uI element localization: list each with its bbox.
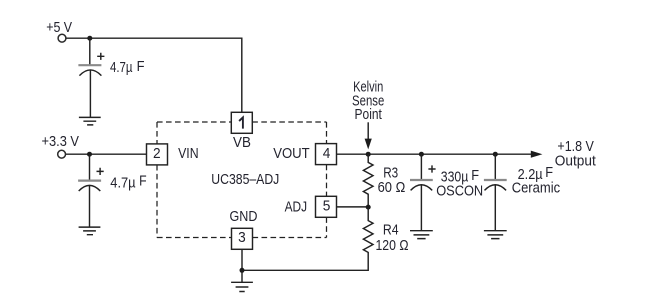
svg-text:Ceramic: Ceramic xyxy=(512,179,561,196)
svg-text:4.7µ: 4.7µ xyxy=(110,59,133,76)
svg-text:4.7µ: 4.7µ xyxy=(110,175,136,192)
svg-text:2: 2 xyxy=(153,145,161,162)
svg-text:OSCON: OSCON xyxy=(436,182,483,199)
svg-text:VIN: VIN xyxy=(178,145,199,162)
svg-text:+3.3 V: +3.3 V xyxy=(42,133,80,150)
svg-text:120 Ω: 120 Ω xyxy=(376,237,409,254)
svg-text:5: 5 xyxy=(323,198,331,215)
svg-text:UC385–ADJ: UC385–ADJ xyxy=(211,171,279,188)
svg-text:ADJ: ADJ xyxy=(285,198,307,215)
svg-text:+5 V: +5 V xyxy=(46,19,72,36)
svg-text:Point: Point xyxy=(355,106,383,123)
svg-text:3: 3 xyxy=(238,229,246,246)
svg-text:F: F xyxy=(137,58,145,75)
svg-text:F: F xyxy=(471,167,479,184)
svg-text:Output: Output xyxy=(555,152,597,169)
svg-text:VOUT: VOUT xyxy=(273,145,310,162)
svg-text:F: F xyxy=(139,173,147,190)
svg-text:4: 4 xyxy=(323,145,331,162)
svg-text:60 Ω: 60 Ω xyxy=(378,179,406,196)
svg-text:VB: VB xyxy=(233,134,251,151)
svg-text:GND: GND xyxy=(230,208,258,225)
